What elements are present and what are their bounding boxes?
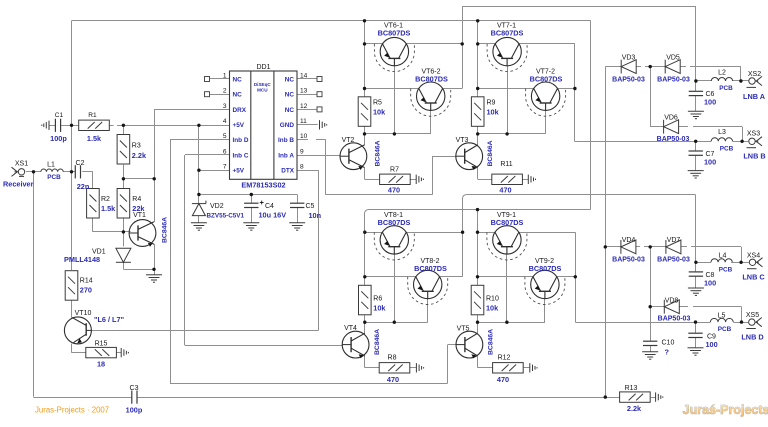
pin 1 NC square: [205, 77, 210, 82]
svg-text:VT5: VT5: [457, 326, 470, 333]
svg-text:VT2: VT2: [342, 137, 355, 144]
wire: R3-R4 node to DRX: [123, 178, 154, 180]
resistor R15: [86, 347, 117, 357]
wire: VD5 to LNB A drop: [690, 66, 741, 68]
pin 14 NC square: [317, 77, 322, 82]
wire: VT7-1 base down: [507, 66, 509, 134]
wire: R12 to gnd: [523, 367, 530, 369]
wire: C4 drop: [251, 195, 253, 204]
node: junction VT6 collectors: [461, 42, 464, 45]
wire: LNB A row: [696, 80, 711, 82]
wire: VD6 run: [693, 126, 742, 128]
wire: C7 to gnd: [695, 155, 697, 170]
svg-text:13: 13: [300, 88, 308, 95]
svg-text:BC807DS: BC807DS: [530, 75, 563, 84]
wire: VT6-2 collector: [443, 88, 463, 90]
wire: VT10 base from DTX: [91, 330, 318, 332]
wire: VT10 emitter to R15: [71, 352, 86, 354]
svg-text:L4: L4: [719, 253, 727, 260]
svg-text:12: 12: [300, 103, 308, 110]
wire: C8 to gnd: [695, 276, 697, 288]
svg-text:C5: C5: [306, 203, 315, 210]
node: junction +5V pin7: [197, 169, 200, 172]
node: junction LNB C/C8: [694, 261, 697, 264]
wire: VD6 drop: [742, 127, 744, 142]
node: junction R4/VT1 base: [122, 230, 125, 233]
resistor R10: [471, 285, 484, 315]
wire: VD7 run: [691, 246, 741, 248]
capacitor C6: [689, 91, 703, 95]
svg-text:NC: NC: [233, 92, 243, 99]
svg-text:LNB B: LNB B: [743, 152, 765, 161]
ground C6: [688, 111, 704, 118]
connector XS5 LNB D: [746, 318, 762, 329]
node: junction VT9-2 emitter: [476, 275, 479, 278]
wire: +5V rail to C4 C5: [199, 194, 297, 196]
diode VD7 BAP50-03: [666, 240, 681, 254]
node: junction VT8-1 emitter: [363, 231, 366, 234]
wire: left vertical RX/C1/receiver/R14: [71, 21, 73, 270]
wire: VT6-1 base down: [394, 66, 396, 134]
svg-text:BC846A: BC846A: [375, 140, 382, 166]
pin 12 NC square: [317, 107, 322, 112]
svg-text:LNB A: LNB A: [743, 92, 766, 101]
svg-text:+5V: +5V: [233, 168, 245, 175]
node: junction VD8/XS5: [740, 320, 743, 323]
svg-text:Inb B: Inb B: [278, 137, 294, 144]
svg-text:100: 100: [706, 340, 718, 349]
wire: VD3 row left: [605, 66, 621, 68]
capacitor C5: [290, 203, 304, 207]
svg-text:R4: R4: [132, 196, 141, 203]
wire: VD8 drop: [741, 307, 743, 322]
wire: VD2 to gnd: [198, 216, 200, 223]
node: junction VD4/VD7/VD8: [649, 245, 652, 248]
wire: C5 drop: [297, 195, 299, 204]
capacitor C4: [244, 203, 258, 207]
IC DD1 EM78153S02: [230, 71, 298, 179]
ground C5: [289, 223, 305, 230]
wire: pin12 stub: [297, 109, 317, 111]
svg-text:C1: C1: [55, 112, 64, 119]
svg-text:4: 4: [223, 118, 227, 125]
wire: pin5 InbD: [170, 139, 230, 141]
wire: VT3 base: [432, 156, 456, 158]
wire: VT2 collector row: [365, 133, 431, 135]
svg-text:6: 6: [223, 148, 227, 155]
svg-text:XS2: XS2: [748, 71, 761, 78]
zener VD2 BZV55-C5V1: [192, 201, 206, 216]
transistor VT7-2 BC807DS: [531, 82, 559, 110]
C4 plus sign: [260, 201, 264, 205]
wire: XS1 to L1: [26, 171, 41, 173]
wire: VT7-2 base down: [545, 110, 547, 133]
wire: R2 to VT1 base row: [92, 218, 94, 232]
wire: VD3 anode: [636, 66, 641, 68]
capacitor C7: [689, 151, 703, 155]
transistor VT2 BC846A: [340, 143, 367, 170]
svg-text:10n: 10n: [309, 211, 322, 220]
svg-text:C3: C3: [130, 385, 139, 392]
ground R11: [528, 175, 535, 184]
node: junction VT6-1 emitter: [363, 42, 366, 45]
svg-text:BAP50-03: BAP50-03: [657, 136, 690, 143]
svg-text:10: 10: [300, 133, 308, 140]
wire: R14 to VT10 collector: [71, 300, 73, 317]
svg-text:MCU: MCU: [257, 88, 268, 93]
transistor VT7-1 BC807DS: [493, 37, 521, 65]
ground R8: [416, 363, 423, 372]
transistor VT6-2 BC807DS: [417, 82, 445, 110]
svg-text:L1: L1: [47, 162, 55, 169]
wire: pin14 stub: [297, 78, 317, 80]
connector XS4 LNB C: [747, 258, 763, 269]
svg-text:11: 11: [300, 118, 307, 125]
wire: pin11 GND stub: [297, 124, 318, 126]
wire: C6 to gnd: [695, 95, 697, 111]
wire: VT8-1 collector: [406, 232, 462, 234]
svg-text:10u 16V: 10u 16V: [259, 211, 287, 220]
wire: R3 bottom to R4 top: [123, 165, 125, 189]
node: junction VT7-2 emitter: [476, 87, 479, 90]
node: junction VD7/XS4: [739, 261, 742, 264]
svg-text:5: 5: [223, 133, 227, 140]
wire: VT3 emitter to R11: [478, 179, 492, 181]
wire: VT3 collector row: [478, 133, 546, 135]
wire: VD5 drop: [740, 67, 742, 81]
wire: VD1 to gnd row: [123, 263, 125, 270]
wire: pin1 stub: [210, 78, 230, 80]
svg-text:R9: R9: [487, 100, 496, 107]
transistor VT3 BC846A: [456, 143, 483, 170]
svg-text:C2: C2: [76, 160, 85, 167]
svg-text:R15: R15: [95, 341, 108, 348]
node: junction VT8-2 emitter: [363, 275, 366, 278]
wire: VT5 emitter to R12: [478, 367, 493, 369]
resistor R13: [620, 392, 651, 402]
node: junction R6/VT4 collector: [363, 321, 366, 324]
svg-text:R1: R1: [88, 112, 97, 119]
resistor R5: [358, 97, 371, 127]
wire: LNB D row: [575, 322, 710, 324]
wire: InbD run: [170, 383, 448, 385]
wire: R1 out: [109, 125, 114, 127]
wire: VD4-VD7 node to VD8 and C10: [650, 247, 652, 341]
resistor R12: [493, 363, 524, 373]
wire: DTX drop: [318, 170, 320, 330]
wire: VT6-2 base down: [430, 110, 432, 133]
wire: y44 to VT7-1: [478, 43, 496, 45]
capacitor C8: [689, 272, 703, 276]
diode VD4 BAP50-03: [621, 240, 636, 254]
capacitor C10: [643, 341, 657, 345]
connector XS1 Receiver: [12, 167, 25, 176]
svg-text:C4: C4: [265, 203, 274, 210]
svg-text:L3: L3: [718, 129, 726, 136]
node: junction VT6-2 emitter: [363, 87, 366, 90]
diode VD1 PMLL4148: [116, 248, 131, 262]
wire: VT9-1 base down: [506, 254, 508, 322]
node: junction +5V rail/VD2: [197, 193, 200, 196]
svg-text:EM78153S02: EM78153S02: [241, 181, 285, 190]
node: junction receiver line: [70, 170, 73, 173]
wire: C7 drop: [695, 141, 697, 151]
ground R15: [121, 348, 128, 357]
wire: bottom to C3: [34, 397, 132, 399]
resistor R14: [65, 271, 78, 301]
wire: VD5 anode: [680, 66, 686, 68]
svg-text:BC807DS: BC807DS: [491, 29, 524, 38]
node: junction VT7-1 base: [505, 132, 508, 135]
transistor VT4 BC846A: [342, 331, 369, 358]
wire: lower bus corner: [365, 210, 591, 215]
wire: VD7 anode: [681, 246, 687, 248]
wire: C5 to gnd: [297, 208, 299, 223]
wire: VD1/VT1 emitter gnd row: [123, 269, 154, 271]
svg-text:BC807DS: BC807DS: [378, 29, 411, 38]
wire: upper bus B: [477, 21, 479, 97]
svg-text:BC846A: BC846A: [488, 329, 495, 355]
wire: C4 to gnd: [251, 208, 253, 223]
wire: upper bus A: [364, 21, 366, 97]
wire: LNB A feed top: [462, 6, 696, 8]
wire: pin13 stub: [297, 94, 317, 96]
svg-text:L2: L2: [718, 70, 726, 77]
svg-text:R14: R14: [80, 278, 93, 285]
svg-text:Inb C: Inb C: [233, 152, 249, 159]
wire: VD7 drop: [741, 247, 743, 262]
svg-text:VT4: VT4: [344, 325, 357, 332]
ground C8: [688, 288, 704, 295]
svg-text:1: 1: [223, 72, 227, 79]
wire: VT5 base riser: [447, 345, 449, 383]
wire: VT3 emitter: [477, 168, 479, 180]
wire: VT4 emitter to R8: [365, 367, 379, 369]
wire: top RX bus: [72, 20, 591, 22]
wire: LNB C node riser: [695, 195, 697, 272]
svg-text:NC: NC: [285, 107, 295, 114]
wire: VT5 emitter: [477, 356, 479, 368]
svg-text:470: 470: [388, 186, 400, 195]
node: junction VD bus/VD4: [604, 245, 607, 248]
inductor L1: [41, 169, 63, 172]
capacitor C2: [75, 165, 80, 178]
wire: pin10 InbB: [316, 139, 326, 141]
svg-text:VD5: VD5: [666, 55, 680, 62]
wire: receiver branch down: [33, 172, 35, 397]
wire: LNB C feed corner: [463, 195, 696, 200]
connector XS3 LNB B: [747, 137, 763, 148]
pin 13 NC square: [317, 92, 322, 97]
svg-text:R10: R10: [486, 296, 499, 303]
wire: L5 to XS5: [733, 322, 748, 324]
transistor VT8-1 BC807DS: [380, 226, 408, 254]
svg-text:NC: NC: [285, 76, 295, 83]
wire: VT5 base: [448, 344, 457, 346]
node: junction VT8-1 base: [393, 321, 396, 324]
wire: InbD vertical: [170, 140, 172, 384]
wire: R7 to gnd: [410, 179, 416, 181]
wire: y44 to VT6-1: [365, 43, 383, 45]
svg-text:100p: 100p: [50, 134, 67, 143]
svg-text:BC807DS: BC807DS: [378, 218, 411, 227]
svg-text:BAP50-03: BAP50-03: [657, 77, 690, 84]
capacitor C9: [688, 333, 702, 337]
resistor R3: [117, 135, 130, 165]
wire: C10 to gnd: [650, 346, 652, 352]
svg-text:470: 470: [387, 375, 399, 384]
svg-text:BAP50-03: BAP50-03: [612, 257, 645, 264]
node: junction VD6/XS3: [740, 140, 743, 143]
svg-text:Inb A: Inb A: [278, 152, 294, 159]
wire: VT8-2 base down: [427, 299, 429, 323]
wire: VT9-1 collector: [519, 232, 575, 234]
ground R7: [416, 175, 423, 184]
node: junction R1/R3: [122, 124, 125, 127]
svg-text:BC807DS: BC807DS: [414, 264, 447, 273]
svg-text:470: 470: [499, 186, 511, 195]
wire: LNB C riser: [462, 199, 464, 277]
resistor R9: [471, 97, 484, 127]
svg-text:BC846A: BC846A: [162, 217, 169, 243]
ground R12: [530, 363, 537, 372]
node: junction rail/C4: [250, 193, 253, 196]
ground C9: [688, 348, 704, 355]
ground C4: [243, 223, 259, 230]
wire: y88 to VT7-2: [478, 88, 534, 90]
svg-text:VD6: VD6: [664, 115, 678, 122]
wire: InbB run: [326, 194, 433, 196]
ground R13: [656, 392, 663, 401]
wire: L3 to XS3: [733, 141, 749, 143]
diode VD6 BAP50-03: [664, 120, 679, 134]
svg-text:+5V: +5V: [233, 122, 245, 129]
connector XS2 LNB A: [747, 76, 763, 87]
wire: +5V rail vertical: [198, 125, 200, 203]
resistor R8: [379, 363, 410, 373]
svg-text:?: ?: [665, 348, 670, 357]
wire: pin6 InbC: [185, 154, 230, 156]
wire: R6 bottom: [364, 315, 366, 322]
svg-text:VD8: VD8: [665, 297, 679, 304]
transistor VT10: [64, 317, 91, 344]
svg-text:100: 100: [704, 158, 716, 167]
svg-text:R2: R2: [101, 196, 110, 203]
node: junction VT7-1 emitter: [476, 42, 479, 45]
wire: VT6 collectors to LNB A riser: [462, 6, 464, 88]
wire: gnd to C1: [49, 125, 55, 127]
transistor VT5 BC846A: [456, 331, 483, 358]
inductor L2: [711, 77, 732, 81]
wire: C2 to R2: [92, 172, 94, 189]
wire: to VD6: [650, 126, 663, 128]
svg-text:GND: GND: [280, 122, 295, 129]
inductor L5: [710, 318, 733, 322]
svg-text:Receiver: Receiver: [3, 180, 34, 189]
svg-text:C10: C10: [662, 340, 675, 347]
ground pin11 GND: [320, 120, 327, 129]
svg-text:18: 18: [97, 360, 105, 369]
node: junction R5/VT2 collector: [363, 132, 366, 135]
svg-text:1.5k: 1.5k: [87, 134, 102, 143]
wire: VT6-1 collector: [406, 43, 462, 45]
svg-text:10k: 10k: [486, 304, 499, 313]
wire: lower bus A: [364, 214, 366, 285]
svg-text:VT3: VT3: [456, 137, 469, 144]
wire: VD8 run: [693, 306, 742, 308]
svg-text:DTX: DTX: [281, 168, 295, 175]
wire: LNB B row: [575, 141, 712, 143]
wire: RX bus drop to lower section: [590, 21, 592, 210]
wire: R3 top: [123, 125, 125, 134]
svg-text:10k: 10k: [373, 108, 386, 117]
wire: to VD8: [650, 306, 664, 308]
wire: R1 to pin4 +5V: [117, 125, 230, 127]
wire: VT2 emitter to R7: [365, 179, 380, 181]
svg-text:R11: R11: [500, 161, 512, 168]
svg-text:Juras-Projects · 2007: Juras-Projects · 2007: [35, 406, 109, 415]
node: junction VT6-1 base: [393, 132, 396, 135]
node: junction LNB D/C9: [694, 320, 697, 323]
resistor R1: [79, 120, 110, 130]
svg-text:100: 100: [704, 279, 716, 288]
wire: C2 out: [82, 171, 93, 173]
node: junction C1/R1 node: [70, 124, 73, 127]
wire: VD4 anode: [636, 246, 640, 248]
svg-text:R13: R13: [625, 385, 638, 392]
svg-text:10k: 10k: [373, 304, 386, 313]
wire: R8 to gnd: [410, 367, 417, 369]
svg-text:PCB: PCB: [719, 266, 733, 273]
pin 2 NC square: [205, 92, 210, 97]
wire: R4 bottom / VD1 top: [123, 218, 125, 246]
wire: InbC to VT4 base: [185, 345, 342, 347]
svg-text:R3: R3: [132, 143, 141, 150]
wire: R5 bottom: [364, 126, 366, 134]
node: junction VT7-2 collector: [573, 87, 576, 90]
wire: R15 to gnd: [116, 352, 121, 354]
wire: R10 bottom: [477, 315, 479, 322]
wire: VD3-VD5 node to VD6: [650, 67, 652, 127]
svg-text:VD3: VD3: [622, 55, 636, 62]
wire: pin9 InbA to VT2 base: [297, 155, 340, 157]
node: junction VT9-1 base: [505, 321, 508, 324]
wire: to VD5: [645, 66, 665, 68]
svg-text:PCB: PCB: [720, 145, 734, 152]
node: junction receiver branch: [32, 170, 35, 173]
svg-text:2.2k: 2.2k: [627, 404, 642, 413]
wire: VT5 collector row: [478, 322, 545, 324]
node: junction bus B top: [476, 19, 479, 22]
wire: lower bus B: [477, 210, 479, 286]
svg-text:BAP50-03: BAP50-03: [612, 77, 645, 84]
svg-text:BAP50-03: BAP50-03: [657, 257, 690, 264]
resistor R11: [492, 174, 523, 184]
svg-text:R8: R8: [388, 355, 397, 362]
svg-text:L5: L5: [718, 313, 726, 320]
svg-text:470: 470: [497, 375, 509, 384]
svg-text:VT1: VT1: [133, 212, 146, 219]
node: junction +5V pin4: [197, 124, 200, 127]
svg-text:PCB: PCB: [718, 326, 732, 333]
wire: VT9-2 base down: [544, 299, 546, 323]
svg-text:VD2: VD2: [210, 203, 224, 210]
svg-text:8: 8: [300, 164, 304, 171]
wire: VT1 base row: [93, 231, 131, 233]
diode VD8 BAP50-03: [664, 300, 679, 314]
resistor R6: [359, 285, 372, 315]
svg-text:270: 270: [80, 286, 92, 295]
